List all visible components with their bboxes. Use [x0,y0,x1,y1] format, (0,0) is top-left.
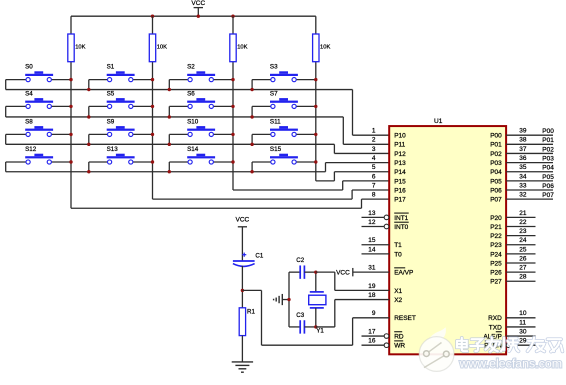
svg-text:EA/VP: EA/VP [394,270,413,277]
svg-text:27: 27 [519,265,527,272]
svg-text:17: 17 [368,328,376,335]
svg-text:Y1: Y1 [316,327,324,334]
svg-text:RESET: RESET [394,315,416,322]
svg-text:P01: P01 [542,137,554,144]
svg-text:6: 6 [372,173,376,180]
svg-text:38: 38 [519,137,527,144]
svg-text:P06: P06 [542,183,554,190]
svg-text:S14: S14 [187,146,199,153]
svg-text:12: 12 [368,219,376,226]
svg-text:T1: T1 [394,242,402,249]
svg-text:P05: P05 [542,174,554,181]
svg-text:S1: S1 [107,64,115,71]
svg-text:P20: P20 [490,215,502,222]
svg-text:33: 33 [519,182,527,189]
svg-text:P04: P04 [490,169,502,176]
svg-text:INT1: INT1 [394,215,408,222]
svg-text:P07: P07 [542,192,554,199]
svg-text:P13: P13 [394,160,406,167]
svg-text:18: 18 [368,292,376,299]
svg-text:RXD: RXD [488,315,502,322]
svg-text:X2: X2 [394,297,402,304]
svg-text:C1: C1 [255,253,263,260]
svg-text:WR: WR [394,343,405,350]
svg-text:S13: S13 [107,146,119,153]
svg-text:R1: R1 [247,308,255,315]
svg-text:S8: S8 [25,118,33,125]
svg-text:37: 37 [519,146,527,153]
svg-text:2: 2 [372,137,376,144]
svg-text:VCC: VCC [191,0,205,7]
svg-text:P11: P11 [394,142,405,149]
svg-text:C3: C3 [296,312,304,319]
svg-text:T0: T0 [394,251,402,258]
svg-text:www.elecfans.com: www.elecfans.com [459,357,563,371]
svg-text:C2: C2 [296,257,304,264]
svg-text:5: 5 [372,164,376,171]
svg-text:14: 14 [368,246,376,253]
svg-text:10K: 10K [320,45,330,51]
svg-text:TXD: TXD [489,324,502,331]
svg-text:S4: S4 [25,90,33,97]
svg-text:28: 28 [519,274,527,281]
svg-text:10K: 10K [237,45,247,51]
svg-text:P22: P22 [490,233,502,240]
svg-text:S3: S3 [270,64,278,71]
svg-text:P17: P17 [394,197,406,204]
svg-text:P05: P05 [490,178,502,185]
svg-text:32: 32 [519,192,527,199]
svg-text:P14: P14 [394,169,406,176]
svg-text:16: 16 [368,338,376,345]
svg-text:S12: S12 [25,146,37,153]
svg-text:U1: U1 [434,118,443,125]
svg-text:P27: P27 [490,279,502,286]
svg-text:P15: P15 [394,178,406,185]
svg-text:S0: S0 [25,64,33,71]
svg-text:P06: P06 [490,187,502,194]
svg-text:4: 4 [372,155,376,162]
svg-text:VCC: VCC [236,217,250,224]
svg-text:1: 1 [372,128,376,135]
svg-text:S15: S15 [270,146,282,153]
svg-text:P12: P12 [394,151,406,158]
svg-text:P04: P04 [542,165,554,172]
svg-text:31: 31 [368,265,376,272]
svg-text:P00: P00 [490,133,502,140]
svg-text:S6: S6 [187,90,195,97]
svg-text:10K: 10K [157,45,167,51]
svg-text:21: 21 [519,210,527,217]
svg-text:P24: P24 [490,251,502,258]
svg-text:S9: S9 [107,118,115,125]
svg-text:8: 8 [372,192,376,199]
svg-text:22: 22 [519,219,527,226]
svg-text:P03: P03 [490,160,502,167]
svg-text:P00: P00 [542,128,554,135]
svg-text:VCC: VCC [336,269,350,276]
svg-text:26: 26 [519,255,527,262]
svg-text:10K: 10K [75,45,85,51]
svg-text:P25: P25 [490,260,502,267]
svg-text:X1: X1 [394,288,402,295]
svg-text:P07: P07 [490,197,502,204]
svg-text:P26: P26 [490,270,502,277]
svg-text:29: 29 [519,338,527,345]
svg-text:11: 11 [519,319,526,326]
svg-text:39: 39 [519,128,527,135]
svg-text:9: 9 [372,310,376,317]
svg-text:S10: S10 [187,118,199,125]
svg-text:13: 13 [368,210,376,217]
svg-text:P21: P21 [490,224,502,231]
svg-text:S5: S5 [107,90,115,97]
svg-text:S11: S11 [270,118,281,125]
svg-text:S2: S2 [187,64,195,71]
svg-text:P02: P02 [542,146,554,153]
svg-text:P16: P16 [394,187,406,194]
svg-text:35: 35 [519,164,527,171]
svg-text:P01: P01 [490,142,502,149]
svg-text:3: 3 [372,146,376,153]
svg-text:P03: P03 [542,155,554,162]
svg-text:P23: P23 [490,242,502,249]
svg-text:23: 23 [519,228,527,235]
svg-text:24: 24 [519,237,527,244]
svg-text:36: 36 [519,155,527,162]
svg-text:19: 19 [368,283,376,290]
svg-text:25: 25 [519,246,527,253]
svg-text:15: 15 [368,237,376,244]
svg-text:S7: S7 [270,90,278,97]
svg-text:7: 7 [372,182,376,189]
svg-text:P10: P10 [394,133,406,140]
svg-text:INT0: INT0 [394,224,408,231]
svg-text:P02: P02 [490,151,502,158]
svg-text:34: 34 [519,173,527,180]
svg-text:RD: RD [394,333,404,340]
svg-text:10: 10 [519,310,527,317]
svg-text:30: 30 [519,328,527,335]
